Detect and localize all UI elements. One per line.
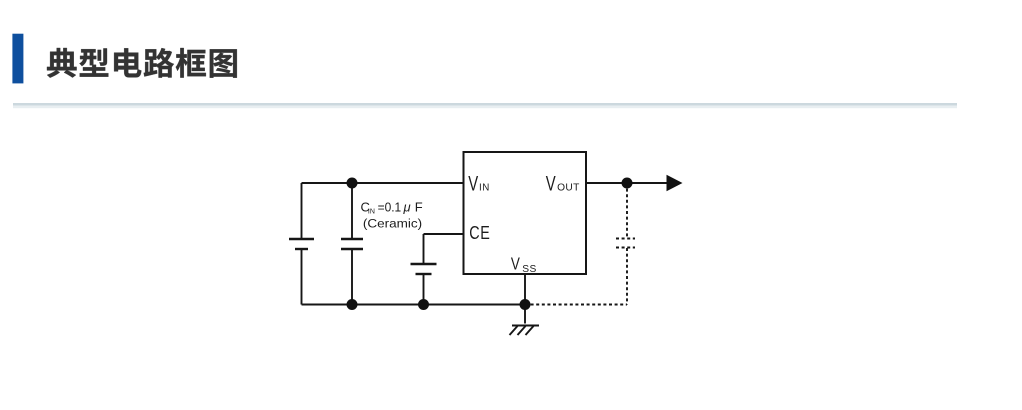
svg-text:F: F bbox=[415, 200, 423, 215]
svg-text:IN: IN bbox=[479, 182, 490, 193]
svg-text:SS: SS bbox=[522, 264, 536, 275]
svg-text:CE: CE bbox=[469, 223, 490, 243]
svg-text:V: V bbox=[511, 255, 520, 274]
svg-text:IN: IN bbox=[368, 208, 375, 215]
svg-text:V: V bbox=[546, 171, 557, 195]
svg-text:OUT: OUT bbox=[557, 182, 580, 193]
svg-text:(Ceramic): (Ceramic) bbox=[363, 216, 422, 230]
svg-text:=0.1: =0.1 bbox=[378, 200, 402, 215]
svg-text:μ: μ bbox=[403, 200, 411, 215]
svg-text:V: V bbox=[468, 171, 479, 195]
